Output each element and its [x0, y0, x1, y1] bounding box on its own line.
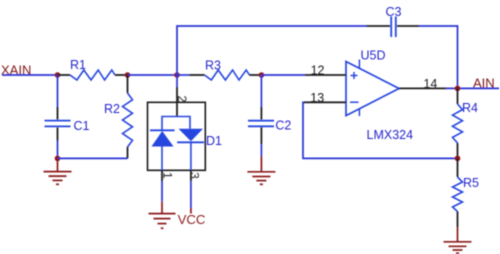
svg-text:12: 12: [311, 64, 325, 78]
svg-text:R1: R1: [70, 58, 86, 72]
wire (feedback up from junction C): [177, 26, 367, 75]
diode D1 pin 3: [190, 170, 192, 181]
diode D1 internal wiring: [162, 117, 190, 131]
wire: [161, 181, 163, 201]
diode D1b (right, cathode down): [177, 129, 204, 171]
wire (junction A down to C1): [57, 75, 59, 107]
op-amp pin 12: [305, 74, 346, 76]
capacitor C3: [367, 5, 420, 37]
junction A: [55, 72, 61, 78]
junction C: [174, 72, 180, 78]
junction D: [259, 72, 265, 78]
ground: [44, 158, 72, 184]
svg-text:VCC: VCC: [178, 212, 206, 227]
resistor R4: [453, 88, 479, 158]
svg-text:U5D: U5D: [361, 49, 386, 63]
ground (under R5): [444, 227, 472, 253]
op-amp pin 14 (output): [399, 87, 446, 89]
diode D1 pin 1: [161, 170, 163, 181]
resistor R1: [58, 58, 128, 80]
wire: [262, 74, 306, 76]
wire: [419, 26, 458, 88]
svg-text:LMX324: LMX324: [367, 128, 414, 142]
svg-text:R2: R2: [104, 102, 120, 116]
wire (bottom rail to R2): [58, 157, 128, 159]
wire: [177, 74, 189, 76]
capacitor C2: [248, 107, 291, 144]
wire (junction D down to C2): [260, 75, 262, 107]
junction B: [125, 72, 131, 78]
svg-text:C1: C1: [74, 119, 90, 133]
junction F (output): [455, 86, 461, 92]
resistor R2: [104, 75, 133, 158]
wire: [190, 181, 192, 208]
power VCC: [178, 208, 206, 227]
junction G: [455, 156, 461, 162]
svg-text:R4: R4: [462, 101, 478, 115]
svg-text:14: 14: [423, 77, 437, 91]
junction E: [55, 156, 61, 162]
svg-text:D1: D1: [206, 134, 222, 148]
wire: [2, 74, 58, 76]
resistor R3: [189, 59, 261, 80]
svg-text:1: 1: [161, 172, 175, 179]
svg-text:C2: C2: [275, 119, 291, 133]
wire: [128, 74, 178, 76]
wire (feedback loop from pin 13): [303, 102, 458, 158]
resistor R5: [453, 158, 480, 227]
diode D1 box: [148, 102, 206, 170]
ground (under D1 pin 1): [149, 201, 176, 228]
capacitor C1: [45, 107, 90, 141]
diode D1a (left, cathode up): [150, 130, 175, 170]
diode D1 pin 2: [176, 87, 178, 117]
svg-text:C3: C3: [386, 5, 402, 19]
svg-text:13: 13: [310, 91, 324, 105]
svg-text:AIN: AIN: [473, 75, 495, 90]
wire (junction C down to D1): [176, 75, 178, 87]
svg-text:3: 3: [187, 172, 201, 179]
wire: [260, 144, 262, 156]
ground (under C2): [247, 156, 275, 184]
svg-text:R5: R5: [463, 176, 479, 190]
op-amp U5D: [346, 49, 413, 142]
op-amp pin 13: [304, 101, 347, 103]
wire: [57, 141, 59, 159]
svg-text:R3: R3: [205, 59, 221, 73]
wire: [446, 87, 499, 89]
